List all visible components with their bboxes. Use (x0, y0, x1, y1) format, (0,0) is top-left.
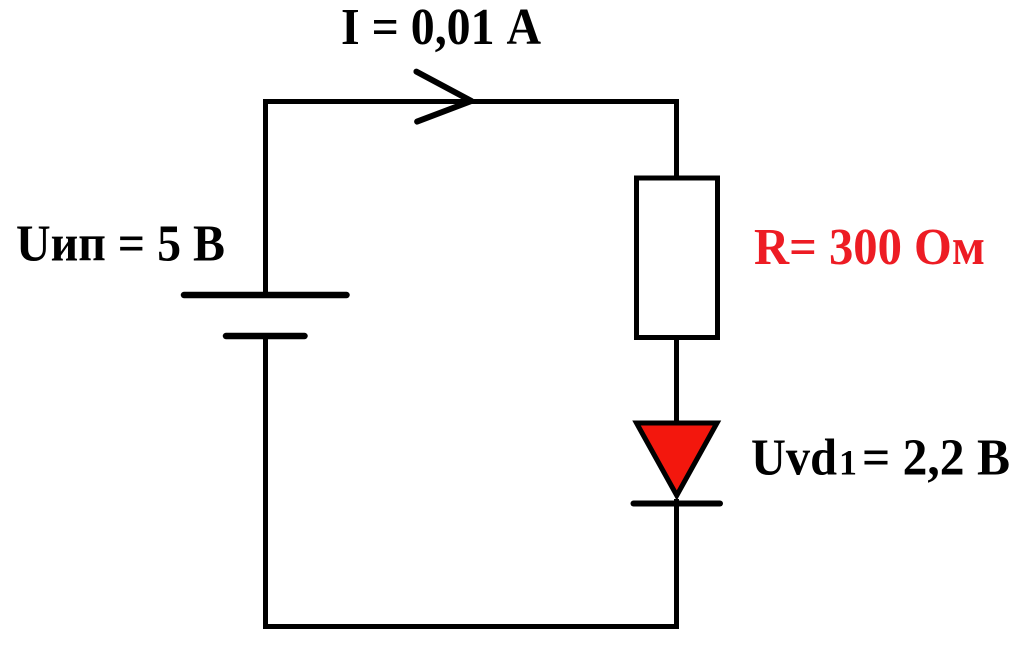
svg-text:I = 0,01 А: I = 0,01 А (341, 0, 541, 56)
battery GB1 short plate (negative) (226, 333, 305, 340)
battery GB1 long plate (positive) (184, 292, 347, 299)
svg-text:Uип = 5 В: Uип = 5 В (16, 216, 225, 273)
svg-text:1: 1 (839, 443, 857, 483)
wire bottom loop: from diode bar down, bottom horizontal, left vertical up to battery short plate (266, 336, 677, 627)
wire: resistor bottom to diode top (674, 338, 679, 423)
diode VD1 triangle (anode) (637, 423, 718, 496)
current arrow on top wire (416, 72, 471, 122)
svg-text:= 2,2 В: = 2,2 В (862, 430, 1010, 487)
wire top-left loop: left vertical from battery up, top horizontal, right vertical down to resistor (266, 102, 677, 296)
svg-text:R= 300 Ом: R= 300 Ом (754, 219, 985, 276)
resistor R body (637, 178, 718, 338)
diode VD1 cathode bar (634, 501, 721, 507)
svg-text:Uvd: Uvd (751, 430, 837, 487)
